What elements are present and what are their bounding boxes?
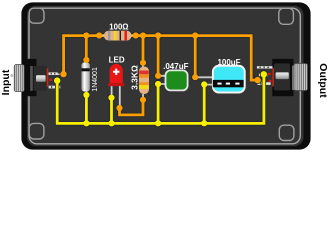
resistor R1 leads xyxy=(101,35,136,37)
input jack barrel shine bar xyxy=(36,75,46,82)
input jack sleeve red contact xyxy=(49,79,52,81)
input jack mounting shadow xyxy=(24,59,37,96)
svg-text:.047uF: .047uF xyxy=(163,62,188,71)
orange net: input tip up, top bus, down to output tip xyxy=(64,36,258,81)
resistor R2 3.3K body xyxy=(139,67,149,95)
output jack threaded collar xyxy=(294,64,308,91)
input jack threaded collar xyxy=(14,65,24,92)
wire: .047uF top drop xyxy=(157,36,160,76)
component pin dots yellow xyxy=(54,71,267,101)
input jack collar nub xyxy=(11,74,14,77)
output jack upper lug xyxy=(257,66,273,68)
junction dots orange top bus xyxy=(83,32,198,38)
output jack red contact upper xyxy=(268,73,271,75)
wire: LED anode to 3.3K bottom xyxy=(120,100,144,115)
enclosure gray panel xyxy=(27,6,304,146)
wire: LED cathode to bus xyxy=(110,98,113,124)
output jack red insulator stripe xyxy=(272,68,274,87)
screw corner TL xyxy=(29,8,44,23)
capacitor C1 leads xyxy=(158,76,166,84)
svg-text:3.3KΩ: 3.3KΩ xyxy=(130,65,140,90)
capacitor C1 .047uF body xyxy=(166,70,188,90)
junction dots yellow ground bus xyxy=(83,120,207,126)
svg-text:100Ω: 100Ω xyxy=(109,22,128,31)
output jack barrel xyxy=(274,63,290,90)
LED D2 body xyxy=(108,64,125,86)
input jack tip lead to wire xyxy=(58,73,63,75)
page background xyxy=(0,0,332,152)
wire: .047uF minus to bus xyxy=(157,84,160,123)
input jack panel ring xyxy=(30,66,33,91)
wire: 100uF minus to bus xyxy=(203,84,206,123)
dot shadow rings xyxy=(53,32,268,128)
svg-text:Input: Input xyxy=(0,69,12,95)
yellow net: input sleeve down, ground bus, up to output sleeve xyxy=(57,74,264,123)
screw corner BR xyxy=(279,125,294,140)
output jack barrel shine bar xyxy=(276,72,289,79)
output jack mid lug xyxy=(259,74,268,77)
wire: 3.3K top drop xyxy=(142,36,145,63)
wire shadow outlines xyxy=(57,36,264,124)
resistor R1 100 ohm body xyxy=(104,31,132,41)
wire: diode top drop xyxy=(85,36,88,61)
output jack panel ring xyxy=(292,66,294,90)
input jack tip lug (upper contact) xyxy=(49,72,58,75)
diode D1 leads xyxy=(85,60,87,95)
svg-text:Output: Output xyxy=(317,63,329,98)
screw corner TR xyxy=(279,8,294,24)
capacitor C2 leads xyxy=(195,77,213,84)
wire: diode bottom to bus xyxy=(85,95,88,123)
svg-text:1N4001: 1N4001 xyxy=(92,67,99,92)
component pin dots orange xyxy=(60,57,261,111)
svg-text:LED: LED xyxy=(109,55,125,64)
output jack shadow ring xyxy=(290,63,292,91)
enclosure outer black shell xyxy=(21,2,310,149)
input jack lower lug xyxy=(49,86,61,89)
output jack tip lead to wire xyxy=(258,80,263,82)
resistor R2 leads xyxy=(142,63,144,100)
input jack barrel xyxy=(34,66,47,91)
diode D1 1N4001 body xyxy=(81,62,89,91)
enclosure gray outline xyxy=(29,8,300,144)
input jack red insulator stripe xyxy=(47,68,49,86)
output jack red contact lower xyxy=(269,80,272,82)
screw corner BL xyxy=(29,123,44,139)
output jack lower lug xyxy=(257,82,270,85)
LED legs xyxy=(112,85,120,108)
capacitor C2 100uF body xyxy=(213,66,245,93)
svg-text:100uF: 100uF xyxy=(217,58,240,67)
wire: 100uF plus drop xyxy=(194,36,197,78)
output jack mounting shadow xyxy=(272,59,293,96)
